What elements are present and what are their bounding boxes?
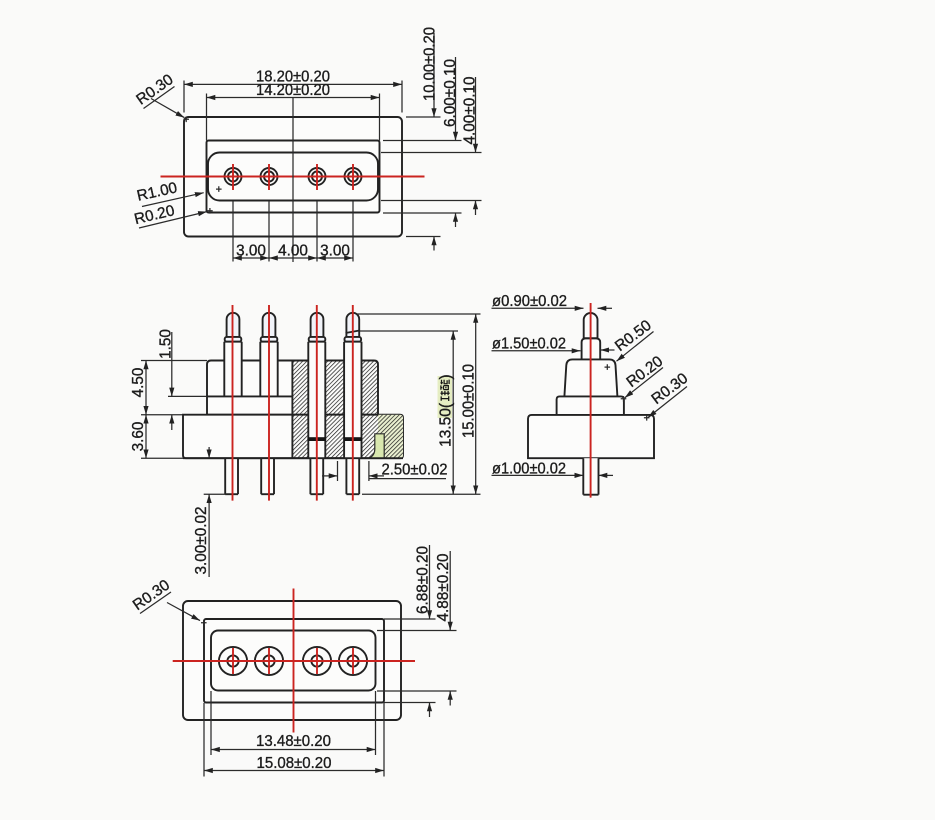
pin 1 top circles: [225, 168, 242, 185]
extension line tail bottom: [362, 493, 481, 495]
solder tail pin 2: [261, 458, 274, 494]
plunger tip (ø0.90): [584, 313, 598, 338]
CJK 工作高度 working-height glyphs: [440, 380, 449, 401]
middle step R0.20: [557, 396, 624, 415]
dimension 3.00±0.02 (tail length): [193, 447, 227, 577]
dimension 18.20±0.20: [184, 69, 402, 113]
svg-text:6.88±0.20: 6.88±0.20: [415, 546, 432, 614]
dimension ø1.50±0.02: [492, 336, 615, 353]
leader R1.00 (pocket corner radius): [135, 179, 203, 206]
dimension 13.48±0.20: [211, 691, 376, 755]
dimension 15.00±0.10 (free height): [461, 314, 478, 494]
dimension ø1.00±0.02: [492, 461, 614, 478]
dimension 2.50±0.02 (slot): [322, 461, 448, 481]
svg-text:3.00: 3.00: [236, 243, 266, 260]
dimension 3.60 (left): [130, 415, 183, 459]
svg-text:): ): [438, 374, 455, 379]
red centerline: [590, 303, 592, 498]
svg-text:ø1.50±0.02: ø1.50±0.02: [492, 336, 566, 353]
extension line pin4 tip (free height): [357, 313, 481, 315]
svg-text:13.50(: 13.50(: [438, 403, 455, 447]
flange lower body (18.20 wide): [183, 415, 403, 459]
svg-text:6.00±0.10: 6.00±0.10: [442, 59, 459, 127]
pocket rounded recess (4.00 high): [208, 153, 378, 201]
dimension 3.00 (pins 3-4): [317, 257, 353, 259]
solder tail pin 4: [346, 458, 359, 494]
svg-text:3.00: 3.00: [320, 243, 350, 260]
dimension ø0.90±0.02: [492, 293, 613, 310]
dimension 6.00±0.10 (right, vertical): [383, 57, 462, 227]
svg-text:1.50: 1.50: [158, 329, 175, 359]
pin 2 plunger and barrel: [260, 313, 277, 397]
solder tail pin 1: [225, 458, 238, 494]
red horizontal centerline: [161, 176, 425, 178]
tail hole pin 1: [219, 647, 247, 675]
dimension 1.50 (left): [158, 329, 208, 430]
dimension 6.88±0.20 (right, vertical): [384, 545, 436, 717]
leader R0.50: [612, 317, 655, 361]
plunger cone body R0.50: [564, 359, 617, 396]
solder tail (ø1.00): [583, 458, 598, 495]
pin 3 top circles: [309, 168, 326, 185]
section hatching: [292, 361, 403, 459]
dimension 4.50 (left): [130, 361, 207, 415]
red pin centerline ticks: [232, 164, 234, 190]
corner center marks: [183, 117, 221, 214]
tail hole pin 3: [303, 647, 331, 675]
insulator upper body: [207, 361, 378, 415]
svg-text:15.00±0.10: 15.00±0.10: [461, 364, 478, 438]
bottom recess (13.48 x 4.88): [211, 631, 376, 691]
svg-text:4.88±0.20: 4.88±0.20: [435, 554, 452, 622]
leader R0.30 (bottom view): [130, 577, 200, 621]
svg-text:10.00±0.20: 10.00±0.20: [422, 27, 439, 101]
internal seam line: [207, 395, 292, 397]
extension line pin4 working height: [360, 330, 459, 332]
dimension 14.20±0.20: [207, 82, 380, 141]
black vertical center extension line: [292, 98, 294, 263]
green gasket bar seen through slot: [369, 434, 384, 458]
dimension 4.88±0.20 (right, vertical): [377, 551, 457, 706]
flange outline (18.20 x 10.00): [183, 601, 401, 720]
svg-text:ø1.00±0.02: ø1.00±0.02: [492, 461, 566, 478]
pin 3 plunger and sectioned barrel: [308, 313, 326, 458]
red pin centerline ticks: [232, 648, 234, 674]
svg-text:13.48±0.20: 13.48±0.20: [256, 733, 331, 750]
leader R0.30 (top-left corner radius): [133, 71, 184, 117]
leader R0.20 (inner step corner radius): [133, 202, 207, 228]
svg-text:3.60: 3.60: [130, 422, 147, 452]
red vertical centerline: [293, 589, 295, 733]
housing outer body (18.20 x 10.00): [184, 117, 402, 237]
tail hole pin 2: [255, 647, 283, 675]
tail hole pin 4: [339, 647, 367, 675]
pin 4 top circles: [345, 168, 362, 185]
pin 4 plunger (at working height) and sectioned barrel: [344, 313, 362, 458]
leader R0.20: [623, 353, 666, 398]
red horizontal centerline: [173, 660, 415, 662]
corner center mark: [201, 620, 207, 626]
working height mark on pin 4 tip: [346, 331, 360, 334]
section boundary line: [291, 361, 293, 459]
svg-text:2.50±0.02: 2.50±0.02: [382, 462, 448, 479]
base block R0.30: [528, 415, 654, 458]
dimension 3.00 (pins 1-2): [233, 257, 269, 259]
dimension 13.50 working height: [438, 331, 455, 494]
red pin centerlines: [232, 305, 234, 501]
svg-text:ø0.90±0.02: ø0.90±0.02: [492, 293, 567, 310]
svg-text:4.50: 4.50: [130, 368, 147, 398]
green highlighted gasket zone: [378, 415, 403, 459]
flange bottom edge: [183, 457, 403, 459]
dimension 4.00 (pins 2-3): [269, 257, 317, 259]
pin 1 plunger and barrel: [224, 313, 241, 397]
dimension 15.08±0.20: [204, 703, 384, 777]
dimension 10.00±0.20 (right, vertical): [406, 27, 441, 251]
svg-text:14.20±0.20: 14.20±0.20: [256, 82, 330, 99]
solder tail pin 3: [310, 458, 323, 494]
pin pitch extension lines: [232, 201, 234, 262]
svg-text:3.00±0.02: 3.00±0.02: [193, 507, 210, 575]
housing inner step (14.20 x 6.00): [207, 141, 380, 213]
center marks: [605, 364, 650, 420]
dimension 4.00±0.10 (right, vertical): [381, 77, 482, 216]
svg-text:15.08±0.20: 15.08±0.20: [257, 755, 332, 772]
pin 2 top circles: [261, 168, 278, 185]
base step (15.08 x 6.88): [204, 619, 384, 703]
svg-text:4.00±0.10: 4.00±0.10: [462, 77, 479, 145]
plunger collar (ø1.50): [582, 338, 601, 359]
leader R0.30: [648, 370, 691, 418]
svg-text:4.00: 4.00: [278, 243, 308, 260]
